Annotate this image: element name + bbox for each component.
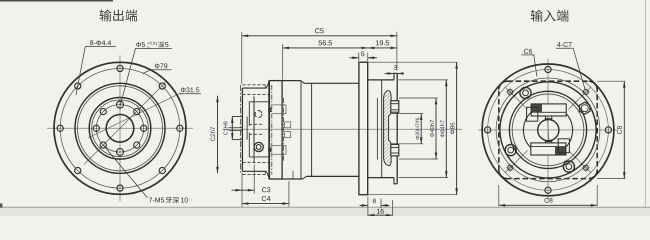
- hidden face line right: [283, 98, 285, 161]
- right view diagonal centerline SE: [569, 150, 592, 173]
- front ring of housing: [269, 81, 282, 179]
- label Φ79: [155, 63, 160, 68]
- input shaft sleeve hatched section: [384, 91, 392, 166]
- input hub bottom edge: [368, 177, 394, 179]
- keyway flat top: [545, 118, 552, 120]
- flange-to-ring chamfer bottom: [266, 171, 269, 178]
- left view diagonal centerline through M5 holes: [84, 82, 166, 164]
- pilot recess line: [246, 117, 248, 140]
- label C6: [524, 49, 528, 54]
- flange-to-ring chamfer top: [266, 81, 269, 88]
- extension lines for Φ40: [399, 97, 438, 99]
- output flange face: [241, 88, 243, 171]
- dimension Φ64h7: [445, 80, 447, 178]
- hidden bearing profile bottom line 1: [273, 153, 287, 155]
- hidden bearing profile top jog: [285, 105, 287, 114]
- housing main bottom edge: [306, 175, 359, 177]
- clamp block top: [531, 104, 566, 116]
- pocket bottom dashes: [249, 133, 263, 135]
- right view diagonal centerline SW: [505, 150, 528, 173]
- plug screw inner circle: [256, 145, 261, 150]
- clamp collar bottom: [391, 144, 399, 156]
- chamfer circle of output boss: [92, 100, 149, 157]
- pocket top outline: [248, 102, 250, 126]
- front ring left face thick line: [268, 81, 270, 179]
- hidden bore line bottom: [242, 162, 269, 164]
- clamp screw bottom-right: [563, 161, 574, 172]
- chamfer circle of housing pilot: [78, 86, 163, 171]
- housing step vertical: [300, 81, 302, 179]
- dimension C5 extension lines: [241, 32, 243, 84]
- input bore circle: [538, 120, 559, 141]
- clamp screw boss square lower-right: [558, 139, 569, 153]
- tapped hole thread circle: [255, 111, 262, 118]
- input flange outer circle Φ86: [482, 64, 614, 196]
- left view diagonal leader line for Φ31.5: [88, 93, 181, 138]
- hidden face line left: [271, 85, 273, 175]
- left view vertical centerline: [119, 55, 121, 201]
- bolt circle Φ79: [60, 69, 180, 189]
- clamp screw top-left: [520, 87, 531, 98]
- input hub top edge: [368, 79, 394, 81]
- hidden edge top: [242, 84, 265, 86]
- clamp block bottom: [531, 143, 566, 155]
- dimension 16: [367, 208, 369, 216]
- keyway flat bottom: [545, 140, 552, 142]
- right view horizontal centerline: [478, 129, 618, 131]
- plug screw outer circle: [254, 142, 263, 151]
- right view diagonal centerline NE: [569, 87, 592, 110]
- square plate corner arcs solid: [499, 81, 508, 90]
- 7 tapped holes M5 and pin hole Φ5: [141, 125, 147, 131]
- dimension Φ40h7: [435, 98, 437, 159]
- page bottom-left mark: [0, 203, 2, 207]
- dimension C1H8 vertical: [231, 117, 234, 123]
- label 7-M5 tapped depth 10: [149, 198, 152, 203]
- extension lines for Φ64: [399, 79, 449, 81]
- output flange hidden pitch line: [240, 85, 242, 174]
- page bottom band: [0, 207, 650, 216]
- hidden bearing profile top line 1: [273, 104, 287, 106]
- hub circle around bore: [523, 106, 572, 155]
- hidden bearing profile bottom jog: [285, 146, 287, 155]
- housing joint line: [311, 83, 313, 176]
- input bore bottom edge: [391, 143, 397, 145]
- hex plug right-top: [580, 102, 590, 114]
- page top edge mark: [0, 0, 113, 2]
- extension lines for Φ20: [397, 113, 423, 115]
- hidden bearing profile bottom line 2: [273, 145, 287, 147]
- housing front bottom edge: [282, 178, 302, 180]
- hub inner bore line: [376, 98, 378, 160]
- dimension 3 rim width: [385, 73, 394, 75]
- output flange bottom edge: [242, 170, 266, 172]
- housing step chamfer top: [301, 81, 305, 84]
- casting circle outer: [509, 91, 586, 168]
- dimension 6 flange plate thickness: [358, 53, 360, 61]
- label 4-C7: [557, 42, 561, 47]
- hidden gear rect bottom: [285, 132, 291, 138]
- dimension 19.5: [368, 47, 397, 49]
- keyway bottom: [544, 140, 546, 143]
- section tab top: [268, 108, 271, 112]
- bolt circle Φ31.5 of M5 holes: [96, 105, 143, 152]
- square adapter plate C8 x C8 hidden edges: [499, 81, 597, 178]
- dimension 56.5: [283, 47, 368, 49]
- circle of housing pilot: [75, 83, 165, 173]
- dimension C8 bottom: [498, 185, 500, 206]
- housing front top edge: [282, 80, 301, 82]
- dimension Φ86: [456, 62, 458, 195]
- dimension C8 right side: [597, 80, 625, 82]
- hidden bore line top: [242, 94, 269, 96]
- four corner holes 4-C7: [583, 90, 588, 95]
- label Φ5 tol depth 5: [136, 42, 141, 47]
- extension lines for Φ86: [369, 61, 458, 63]
- pocket bottom outline: [248, 133, 250, 157]
- four Φ4.4 holes visible: [605, 127, 611, 133]
- dimension 56.5 extension line: [282, 44, 284, 80]
- dimension C4: [241, 194, 243, 207]
- section tab bottom: [268, 148, 271, 152]
- hub inner line: [381, 80, 383, 178]
- center bore circle: [106, 115, 134, 143]
- left view horizontal centerline: [47, 127, 193, 129]
- dimension C2h7 vertical: [217, 96, 219, 174]
- housing step chamfer bottom: [303, 176, 307, 179]
- tilted line through bore: [547, 118, 549, 143]
- bottom short line: [292, 171, 294, 179]
- hidden edge end ticks: [264, 85, 266, 88]
- center hole lines: [229, 127, 243, 129]
- casting circle inner: [512, 94, 584, 166]
- output shaft pilot stub: [231, 117, 233, 140]
- output pilot step line: [253, 96, 255, 162]
- dimension C3: [241, 173, 243, 194]
- input bolt circle Φ79: [488, 69, 609, 190]
- section view horizontal centerline: [223, 128, 463, 130]
- label 8-Φ4.4: [90, 40, 93, 45]
- hub rim top: [394, 73, 397, 80]
- hub rim bottom: [394, 178, 397, 184]
- right view vertical centerline: [547, 59, 549, 201]
- clamp screw boss square upper-left: [527, 107, 538, 121]
- hidden gear rect top: [285, 122, 291, 128]
- clamp screw left-bottom: [505, 145, 516, 156]
- hub right face: [396, 73, 398, 184]
- circle of output boss: [89, 98, 151, 160]
- dimension C5: [242, 35, 397, 37]
- hidden edge bottom: [242, 174, 265, 176]
- hidden bearing profile top line 2: [273, 113, 287, 115]
- clamp collar top: [391, 101, 399, 113]
- right view diagonal centerline NW: [505, 87, 528, 110]
- housing main top edge: [304, 82, 359, 84]
- dimension Φ20H7/f6: [420, 114, 422, 144]
- label Φ31.5: [181, 87, 186, 92]
- title 输入端: [531, 10, 543, 22]
- title 输出端: [100, 9, 112, 21]
- flange outer circle Φ86: [54, 62, 186, 194]
- keyway top: [544, 116, 546, 121]
- 8 mounting holes 8-Φ4.4: [177, 125, 183, 131]
- pilot circle Φ64: [500, 82, 596, 178]
- input bore top edge: [391, 113, 397, 115]
- circle C6: [496, 78, 600, 182]
- input flange plate Φ86: [359, 62, 368, 195]
- page right edge line: [644, 0, 646, 216]
- pocket top dashes: [249, 123, 263, 125]
- dimension 8: [367, 197, 369, 209]
- output flange top edge: [242, 87, 266, 89]
